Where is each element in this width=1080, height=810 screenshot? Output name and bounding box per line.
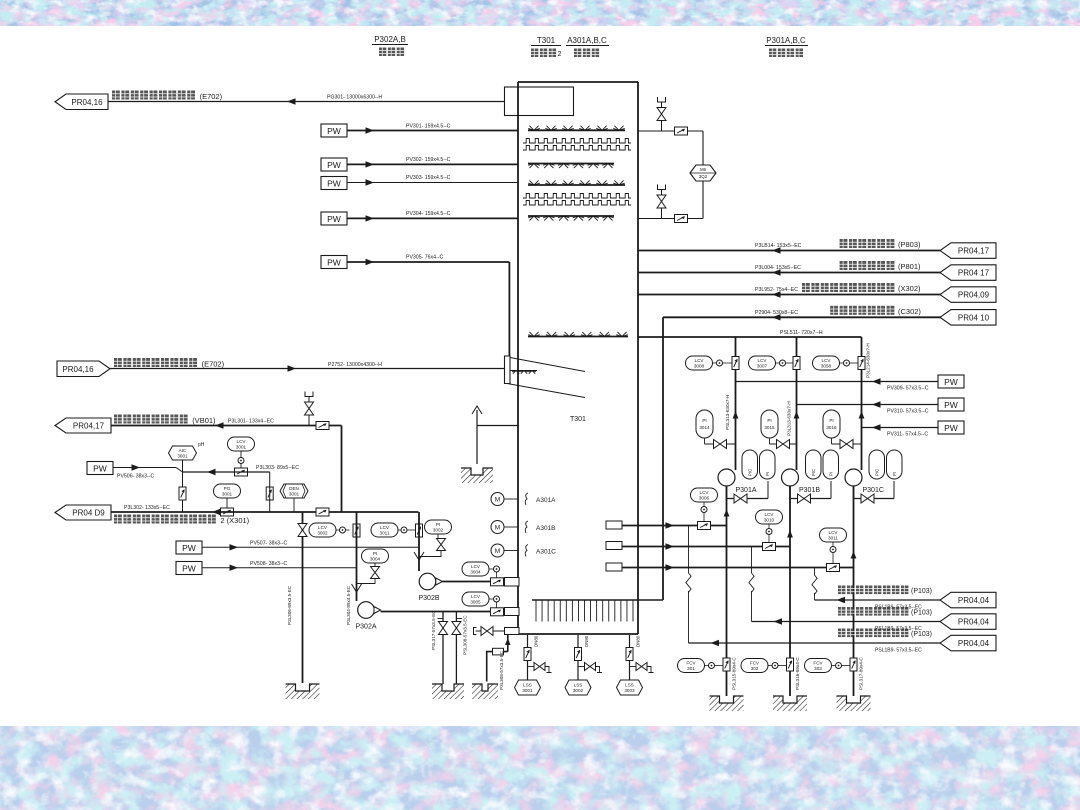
drain valve leg 1 (442, 612, 444, 685)
tower bottom left nozzle (505, 628, 520, 635)
label X301 destination (114, 515, 216, 524)
flag PR04,04 #1 (940, 592, 996, 608)
level valve LCV3011 (371, 523, 398, 537)
drain leg isolation valve (302, 512, 304, 683)
drain pit under pump valves (432, 684, 464, 699)
svg-text:3001: 3001 (236, 445, 247, 450)
limestone slurry feed pipe 1 from P103 (815, 599, 942, 601)
agitator A301A (491, 493, 556, 506)
flow valve on drop leg 1 (678, 657, 737, 690)
process water pipe PV302 (347, 163, 518, 165)
riser to pump P301B (796, 337, 798, 470)
svg-text:PV311- 57x4.5--C: PV311- 57x4.5--C (887, 432, 928, 438)
process water PW box 3 (321, 177, 347, 190)
riser to pump P301A (735, 337, 737, 470)
svg-text:P302B: P302B (418, 595, 439, 602)
svg-text:PSL308-57x3.5-EC: PSL308-57x3.5-EC (463, 615, 468, 655)
gypsum pipe to VB01 (111, 425, 342, 427)
pump P301C drop leg (853, 486, 855, 696)
svg-text:(VB01): (VB01) (192, 416, 216, 425)
svg-text:3006: 3006 (699, 496, 710, 501)
svg-text:PV309- 57x3.5--C: PV309- 57x3.5--C (887, 386, 929, 392)
svg-text:LSS: LSS (574, 683, 583, 688)
svg-text:LCV: LCV (758, 358, 768, 363)
svg-text:PR04,04: PR04,04 (958, 618, 990, 627)
svg-text:PV303- 159x4.5--C: PV303- 159x4.5--C (406, 175, 451, 181)
svg-text:3014: 3014 (699, 425, 710, 430)
limestone slurry feed pipe 2 from P103 (752, 621, 942, 623)
svg-text:PR04 D9: PR04 D9 (72, 509, 105, 518)
import pipe 3 (X302) (638, 294, 941, 296)
svg-text:PSL316-89x4-C: PSL316-89x4-C (795, 657, 800, 690)
svg-text:PW: PW (182, 564, 196, 574)
circulation pump P301C (845, 469, 862, 486)
level valve LCV3007 (749, 356, 801, 370)
limestone slurry feed pipe 3 from P103 (689, 642, 942, 644)
suction nozzle box 2 (606, 542, 622, 550)
flow element on VB01 line (316, 422, 329, 430)
svg-text:3005: 3005 (470, 600, 481, 605)
branch pipe 1 (638, 130, 703, 132)
svg-text:(P103): (P103) (911, 610, 932, 617)
svg-text:P301C: P301C (863, 487, 884, 494)
drain pit under bottom nozzle (472, 684, 498, 699)
import pipe 2 (P801) (638, 272, 941, 274)
flag PR04 10 (940, 310, 996, 326)
svg-text:PV507- 38x3--C: PV507- 38x3--C (250, 541, 287, 547)
svg-text:PI: PI (436, 522, 440, 527)
svg-text:302: 302 (751, 666, 759, 671)
svg-text:3001: 3001 (289, 492, 300, 497)
pH analyzer AIC3001 (169, 446, 197, 460)
flag PR04,09 (940, 287, 996, 303)
svg-text:P3LB14- 153x5--EC: P3LB14- 153x5--EC (755, 243, 802, 249)
svg-text:PR04 10: PR04 10 (958, 313, 990, 322)
svg-text:PW: PW (327, 258, 341, 268)
svg-text:LSS: LSS (523, 683, 532, 688)
clean gas pipe to E702 (108, 101, 505, 103)
svg-text:3010: 3010 (764, 518, 775, 523)
svg-text:PIC: PIC (811, 469, 816, 476)
svg-text:3003: 3003 (624, 688, 635, 693)
svg-text:PR04,04: PR04,04 (958, 639, 990, 648)
svg-text:3016: 3016 (826, 425, 837, 430)
tower suction pipe 3 (622, 567, 854, 569)
flexible joint drop 1 (688, 526, 690, 572)
pressure capsule 3015 (761, 410, 797, 449)
svg-text:PSL317-89x4-C: PSL317-89x4-C (859, 657, 864, 690)
svg-text:3015: 3015 (764, 425, 775, 430)
flag PR04 17 (940, 265, 996, 281)
gypsum bleed assembly 2 (565, 635, 602, 695)
branch pipe 2 (638, 218, 703, 220)
suction leg to pump P302B (418, 512, 420, 571)
svg-text:PI: PI (702, 418, 706, 423)
svg-text:(P103): (P103) (911, 631, 932, 638)
svg-text:P2752- 13000x4300--H: P2752- 13000x4300--H (328, 362, 382, 368)
process water PW box 6 (87, 462, 113, 475)
svg-text:(X302): (X302) (898, 284, 921, 293)
svg-text:LCV: LCV (822, 358, 832, 363)
svg-text:PIC: PIC (875, 469, 880, 476)
pressure gauge PI3004 (362, 549, 389, 563)
svg-text:P302A,B: P302A,B (374, 35, 406, 44)
flexible joint drop 3 (814, 568, 816, 574)
svg-text:M6: M6 (700, 167, 707, 172)
svg-text:T301: T301 (570, 416, 586, 423)
drain valve leg 2 (455, 612, 457, 685)
process water pipe PV304 (347, 217, 518, 219)
flush pipe PV309 (736, 381, 939, 383)
pump P301B drop leg (789, 486, 791, 696)
riser to pump P301C (861, 337, 863, 470)
import pipe 4 (C302) (663, 316, 941, 318)
pressure capsule 3016 (823, 410, 862, 449)
P302A discharge pipe to tower (381, 611, 505, 613)
svg-text:PV302- 159x4.5--C: PV302- 159x4.5--C (406, 157, 451, 163)
svg-text:3004: 3004 (470, 570, 481, 575)
pump P301A drop leg (726, 486, 728, 696)
bottom nozzle drop pipe (507, 635, 509, 652)
svg-text:(P803): (P803) (898, 240, 921, 249)
svg-text:M: M (495, 497, 500, 504)
svg-text:(E702): (E702) (200, 92, 223, 101)
svg-text:PI: PI (373, 551, 377, 556)
gypsum bleed assembly 3 (617, 635, 654, 695)
svg-text:PI: PI (829, 418, 833, 423)
svg-text:LCV: LCV (318, 525, 328, 530)
svg-text:PV304- 159x4.5--C: PV304- 159x4.5--C (406, 211, 451, 217)
svg-text:303: 303 (814, 666, 822, 671)
svg-text:P3L952- 75x4--EC: P3L952- 75x4--EC (755, 287, 798, 293)
svg-text:PSL1B9- 57x3.5--EC: PSL1B9- 57x3.5--EC (875, 648, 922, 654)
svg-text:LCV: LCV (237, 439, 247, 444)
flush pipe PV506 (113, 467, 176, 469)
svg-text:LCV: LCV (471, 594, 481, 599)
svg-text:PW: PW (327, 160, 341, 170)
svg-text:3002: 3002 (317, 531, 328, 536)
gypsum bleed assembly 1 (515, 635, 552, 695)
process water PW box 4 (321, 212, 347, 225)
flag PR04,09 gypsum to X301 (55, 505, 111, 520)
raw gas inlet duct (505, 356, 511, 384)
svg-text:PW: PW (93, 464, 107, 474)
svg-text:DEN: DEN (289, 486, 299, 491)
process water PW box right 1 (938, 375, 964, 388)
gas outlet duct (505, 87, 574, 116)
svg-text:3008: 3008 (694, 364, 705, 369)
svg-text:PW: PW (327, 214, 341, 224)
svg-text:LCV: LCV (700, 490, 710, 495)
svg-text:P302A: P302A (355, 624, 376, 631)
svg-text:PR04,09: PR04,09 (958, 291, 990, 300)
suction nozzle box 1 (606, 521, 622, 529)
svg-text:3007: 3007 (757, 364, 768, 369)
spray header row 3 (528, 184, 625, 186)
P301B discharge valve (789, 486, 791, 499)
flow element on second leg (266, 487, 273, 500)
svg-text:AIC: AIC (179, 448, 187, 453)
svg-text:3001: 3001 (177, 454, 188, 459)
svg-text:P301A: P301A (736, 487, 757, 494)
level valve LCV3001 (228, 437, 255, 451)
svg-text:PSL511- 720x7--H: PSL511- 720x7--H (780, 330, 823, 336)
svg-text:PI: PI (767, 418, 771, 423)
svg-text:PI: PI (765, 472, 770, 476)
pressure gauge PI3002 (425, 520, 452, 534)
tower suction pipe 2 (622, 546, 790, 548)
pressure gauge PG3001 (214, 484, 241, 498)
svg-text:P3L302- 133x5--EC: P3L302- 133x5--EC (124, 505, 170, 511)
vent valve top branch 2 (661, 209, 663, 219)
label VB01 destination (114, 415, 188, 424)
svg-text:2: 2 (558, 51, 562, 58)
oxidation air downpipe (662, 317, 664, 600)
svg-text:PV305- 76x4--C: PV305- 76x4--C (406, 255, 443, 261)
process water PW box 5 (321, 256, 347, 269)
svg-text:P3L303- 89x5--EC: P3L303- 89x5--EC (256, 465, 299, 471)
svg-text:LSS: LSS (625, 683, 634, 688)
svg-text:LCV: LCV (829, 530, 839, 535)
svg-text:3004: 3004 (370, 557, 381, 562)
flag PR04,16 raw gas (57, 361, 110, 377)
svg-text:PIC: PIC (748, 469, 753, 476)
flag PR04,04 #3 (940, 635, 996, 651)
svg-text:3Q2: 3Q2 (699, 174, 708, 179)
sample pipe P3L303 (183, 471, 270, 473)
spray header row 4 (528, 215, 614, 217)
drain pit under drain leg (286, 684, 320, 699)
svg-text:T301: T301 (537, 36, 556, 45)
svg-text:3001: 3001 (222, 492, 233, 497)
density meter DSH3001 (280, 484, 308, 498)
label clean gas destination (112, 91, 195, 100)
pipe riser VB01 to X301 line (341, 426, 343, 513)
svg-text:P3L214-630x7-H: P3L214-630x7-H (866, 343, 871, 378)
svg-text:PR04,17: PR04,17 (958, 247, 990, 256)
level valve LCV3010 (756, 510, 783, 551)
svg-text:LCV: LCV (765, 512, 775, 517)
vent valve top branch 1 (661, 121, 663, 131)
level valve LCV3058 (813, 356, 866, 370)
level valve LCV3004 (462, 562, 489, 576)
svg-text:DN80: DN80 (584, 635, 589, 647)
gypsum pipe to X301 (111, 511, 419, 513)
process water PW box 1 (321, 124, 347, 137)
svg-text:P3L306-89x3.5-EC: P3L306-89x3.5-EC (287, 585, 292, 625)
raw gas pipe from E702 (110, 368, 505, 370)
svg-text:PV506- 38x3--C: PV506- 38x3--C (117, 474, 154, 480)
svg-text:P3L308-57x3.5-EC: P3L308-57x3.5-EC (499, 650, 504, 690)
svg-text:PI: PI (892, 472, 897, 476)
svg-text:PW: PW (182, 543, 196, 553)
spray header row 1 (528, 129, 625, 131)
import pipe 1 (P803) (638, 250, 941, 252)
svg-text:PW: PW (944, 400, 958, 410)
flush pipe PV311 (862, 427, 939, 429)
P301C gauge capsules (869, 450, 902, 479)
flow element to P302A leg (353, 524, 360, 537)
P301C discharge valve (853, 486, 855, 499)
svg-text:3011: 3011 (380, 531, 390, 536)
svg-text:M: M (495, 548, 500, 555)
svg-text:PR04,16: PR04,16 (71, 98, 103, 107)
absorber tower T301 shell (517, 82, 519, 634)
svg-text:A301A: A301A (536, 497, 556, 504)
svg-text:(C302): (C302) (898, 307, 921, 316)
process water pipe PV301 (347, 130, 518, 132)
svg-text:PG: PG (224, 486, 231, 491)
oxidation air sparger (532, 599, 663, 601)
level valve LCV3002 (309, 523, 336, 537)
svg-text:PW: PW (944, 423, 958, 433)
flush pipe PV310 (797, 404, 939, 406)
svg-text:PG301- 13000x6300--H: PG301- 13000x6300--H (327, 95, 382, 101)
pump P302B (419, 573, 436, 590)
svg-text:DN80: DN80 (636, 635, 641, 647)
spray header row 5 (528, 336, 628, 338)
level valve LCV3006 (691, 488, 718, 530)
svg-text:PV508- 38x3--C: PV508- 38x3--C (250, 561, 287, 567)
flow valve on drop leg 3 (805, 657, 864, 690)
flag PR04,17 gypsum to VB01 (55, 418, 111, 433)
tower wall nozzle for P302A return (505, 608, 520, 616)
process water pipe PV305 to inlet quench (347, 261, 509, 263)
process water PW box 8 (176, 562, 202, 575)
svg-text:LCV: LCV (471, 564, 481, 569)
drain pit under P301A leg (710, 696, 744, 711)
pump suction header PSL511 (638, 336, 862, 338)
spray header row 2 (528, 163, 614, 165)
flow element on X301 line (316, 508, 329, 516)
svg-text:PV301- 159x4.5--C: PV301- 159x4.5--C (406, 123, 451, 129)
svg-text:P2904- 530x8--EC: P2904- 530x8--EC (755, 310, 798, 316)
flag PR04,16 clean gas (55, 94, 108, 110)
svg-text:(P801): (P801) (898, 262, 921, 271)
flow valve on drop leg 2 (741, 657, 800, 690)
flush pipe PV507 to P302B (202, 546, 419, 548)
svg-text:3002: 3002 (573, 688, 584, 693)
eductor on branch riser (690, 165, 716, 181)
P301A gauge capsules (742, 450, 775, 479)
suction leg to pump P302A (356, 512, 358, 601)
svg-text:FCV: FCV (686, 661, 696, 666)
svg-text:M: M (495, 525, 500, 532)
demister packing row 1 (523, 139, 631, 144)
svg-text:PW: PW (327, 126, 341, 136)
svg-text:PW: PW (944, 377, 958, 387)
overflow vent pipe with drain (472, 406, 482, 414)
svg-text:FCV: FCV (813, 661, 823, 666)
flush pipe PV508 to P302A (202, 567, 357, 569)
svg-text:A301A,B,C: A301A,B,C (567, 36, 607, 45)
svg-text:P3L304-89x4.5-EC: P3L304-89x4.5-EC (346, 585, 351, 625)
suction nozzle box 3 (606, 563, 622, 571)
svg-text:DN80: DN80 (534, 635, 539, 647)
tower wall nozzle for P302B return (505, 578, 520, 587)
process water PW box right 2 (938, 398, 964, 411)
label raw gas source (114, 358, 197, 367)
svg-text:P301B: P301B (799, 487, 820, 494)
level valve LCV3005 (462, 592, 489, 606)
svg-text:LCV: LCV (380, 525, 390, 530)
svg-text:PR04,16: PR04,16 (62, 365, 94, 374)
svg-text:PW: PW (327, 179, 341, 189)
circulation pump P301A (718, 469, 735, 486)
svg-text:3001: 3001 (522, 688, 533, 693)
circulation pump P301B (782, 469, 799, 486)
svg-text:PV310- 57x3.5--C: PV310- 57x3.5--C (887, 409, 929, 415)
svg-text:3002: 3002 (433, 528, 444, 533)
svg-text:pH: pH (198, 442, 205, 448)
svg-text:P3L004- 153x5--EC: P3L004- 153x5--EC (755, 265, 801, 271)
tower bottom drain line with valve (476, 630, 505, 632)
P302B discharge pipe to tower (443, 581, 505, 583)
svg-text:PR04 17: PR04 17 (958, 269, 990, 278)
svg-text:PI: PI (829, 472, 834, 476)
flexible joint drop 2 (751, 547, 753, 572)
svg-text:3011: 3011 (828, 536, 838, 541)
vent valve on VB01 line (308, 416, 310, 426)
flow element to P302B leg (416, 524, 423, 537)
svg-text:PR04,17: PR04,17 (73, 422, 105, 431)
flow element on AIC leg (179, 487, 186, 500)
svg-text:(E702): (E702) (202, 360, 225, 369)
svg-text:3058: 3058 (821, 364, 832, 369)
svg-text:P301A,B,C: P301A,B,C (766, 36, 806, 45)
flag PR04,04 #2 (940, 614, 996, 630)
process water PW box right 3 (938, 421, 964, 434)
svg-text:P3L301- 133x4--EC: P3L301- 133x4--EC (228, 418, 274, 424)
pump P302A (358, 602, 375, 619)
svg-text:301: 301 (687, 666, 695, 671)
tower suction pipe 1 (622, 525, 727, 527)
process water PW box 2 (321, 158, 347, 171)
svg-text:PSL313-630x7-H: PSL313-630x7-H (725, 395, 730, 430)
drain pit at tower inlet (461, 468, 493, 483)
level valve LCV3011 (820, 528, 847, 572)
svg-text:LCV: LCV (695, 358, 705, 363)
svg-text:A301C: A301C (536, 549, 556, 556)
agitator A301B (491, 521, 556, 534)
svg-text:PSL317-57x3.5-EC: PSL317-57x3.5-EC (431, 610, 436, 650)
drain pit under P301B leg (773, 696, 807, 711)
svg-text:FCV: FCV (750, 661, 760, 666)
demister packing row 2 (523, 194, 631, 199)
process water pipe PV303 (347, 182, 518, 184)
svg-text:2 (X301): 2 (X301) (220, 516, 249, 525)
P301A discharge valve (726, 486, 728, 499)
process water PW box 7 (176, 541, 202, 554)
flag PR04,17 (940, 243, 996, 258)
svg-text:A301B: A301B (536, 525, 556, 532)
level valve LCV3008 (686, 356, 740, 370)
svg-text:(P103): (P103) (911, 588, 932, 595)
P301B gauge capsules (806, 450, 839, 479)
agitator A301C (491, 544, 556, 557)
svg-text:PSL315-89x4-C: PSL315-89x4-C (732, 657, 737, 690)
drain pit under P301C leg (837, 696, 871, 711)
svg-text:P3L313-630x7-H: P3L313-630x7-H (787, 401, 792, 436)
pressure capsule 3014 (696, 410, 736, 449)
svg-text:PR04,04: PR04,04 (958, 596, 990, 605)
branch riser (702, 131, 704, 219)
